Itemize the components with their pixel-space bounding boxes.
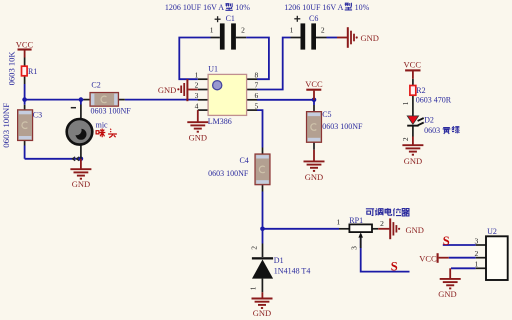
svg-text:6: 6 [255, 91, 259, 100]
svg-text:0603 100NF: 0603 100NF [322, 122, 363, 131]
svg-text:1: 1 [210, 25, 214, 34]
svg-text:1: 1 [475, 260, 479, 269]
svg-text:0603 100NF: 0603 100NF [208, 169, 249, 178]
svg-text:GND: GND [361, 33, 379, 43]
svg-text:2: 2 [250, 246, 259, 250]
svg-text:S: S [391, 260, 398, 274]
svg-text:LM386: LM386 [208, 117, 232, 126]
svg-text:GND: GND [305, 172, 323, 182]
svg-text:1206 10UF 16V A: 1206 10UF 16V A [284, 3, 343, 12]
svg-text:7: 7 [255, 81, 259, 90]
svg-text:S: S [443, 234, 450, 248]
svg-text:2: 2 [195, 81, 199, 90]
svg-text:mic: mic [96, 121, 108, 130]
svg-text:8: 8 [255, 70, 259, 79]
svg-text:VCC: VCC [305, 79, 323, 89]
svg-text:GND: GND [72, 179, 90, 189]
svg-text:VCC: VCC [404, 60, 422, 70]
svg-text:D2: D2 [424, 115, 434, 124]
svg-text:GND: GND [438, 289, 456, 299]
svg-text:GND: GND [253, 308, 271, 318]
svg-text:1: 1 [337, 218, 341, 227]
svg-text:C6: C6 [309, 14, 318, 23]
svg-text:1: 1 [195, 70, 199, 79]
svg-text:U2: U2 [487, 227, 497, 236]
svg-text:1: 1 [249, 286, 258, 290]
svg-text:3: 3 [475, 236, 479, 245]
svg-text:0603: 0603 [424, 126, 440, 135]
svg-text:GND: GND [158, 85, 176, 95]
svg-text:1: 1 [290, 25, 294, 34]
svg-text:0603 470R: 0603 470R [416, 96, 452, 105]
svg-text:RP1: RP1 [349, 216, 363, 225]
svg-text:C5: C5 [322, 110, 331, 119]
svg-text:0603 10K: 0603 10K [7, 51, 17, 86]
svg-text:10%: 10% [355, 3, 370, 12]
svg-text:2: 2 [475, 249, 479, 258]
svg-text:C1: C1 [226, 14, 235, 23]
svg-text:GND: GND [404, 156, 422, 166]
svg-text:3: 3 [350, 246, 359, 250]
svg-text:0603 100NF: 0603 100NF [1, 103, 11, 148]
svg-text:2: 2 [321, 25, 325, 34]
svg-text:1206 10UF 16V A: 1206 10UF 16V A [165, 3, 224, 12]
svg-text:U1: U1 [208, 65, 218, 74]
svg-text:R2: R2 [416, 86, 425, 95]
svg-text:VCC: VCC [419, 253, 437, 263]
svg-text:4: 4 [195, 101, 199, 110]
svg-text:5: 5 [255, 101, 259, 110]
svg-text:GND: GND [189, 132, 207, 142]
svg-text:2: 2 [401, 137, 410, 141]
svg-text:3: 3 [195, 91, 199, 100]
svg-text:0603 100NF: 0603 100NF [91, 107, 132, 116]
svg-text:C4: C4 [239, 156, 248, 165]
svg-text:10%: 10% [235, 3, 250, 12]
svg-text:VCC: VCC [16, 39, 34, 49]
svg-text:1N4148 T4: 1N4148 T4 [274, 267, 311, 276]
svg-text:2: 2 [380, 219, 384, 228]
svg-text:GND: GND [406, 225, 424, 235]
svg-text:R1: R1 [28, 67, 37, 76]
svg-text:C2: C2 [91, 81, 100, 90]
svg-text:1: 1 [401, 101, 410, 105]
svg-text:2: 2 [241, 25, 245, 34]
svg-text:C3: C3 [33, 110, 42, 119]
svg-text:D1: D1 [274, 256, 284, 265]
